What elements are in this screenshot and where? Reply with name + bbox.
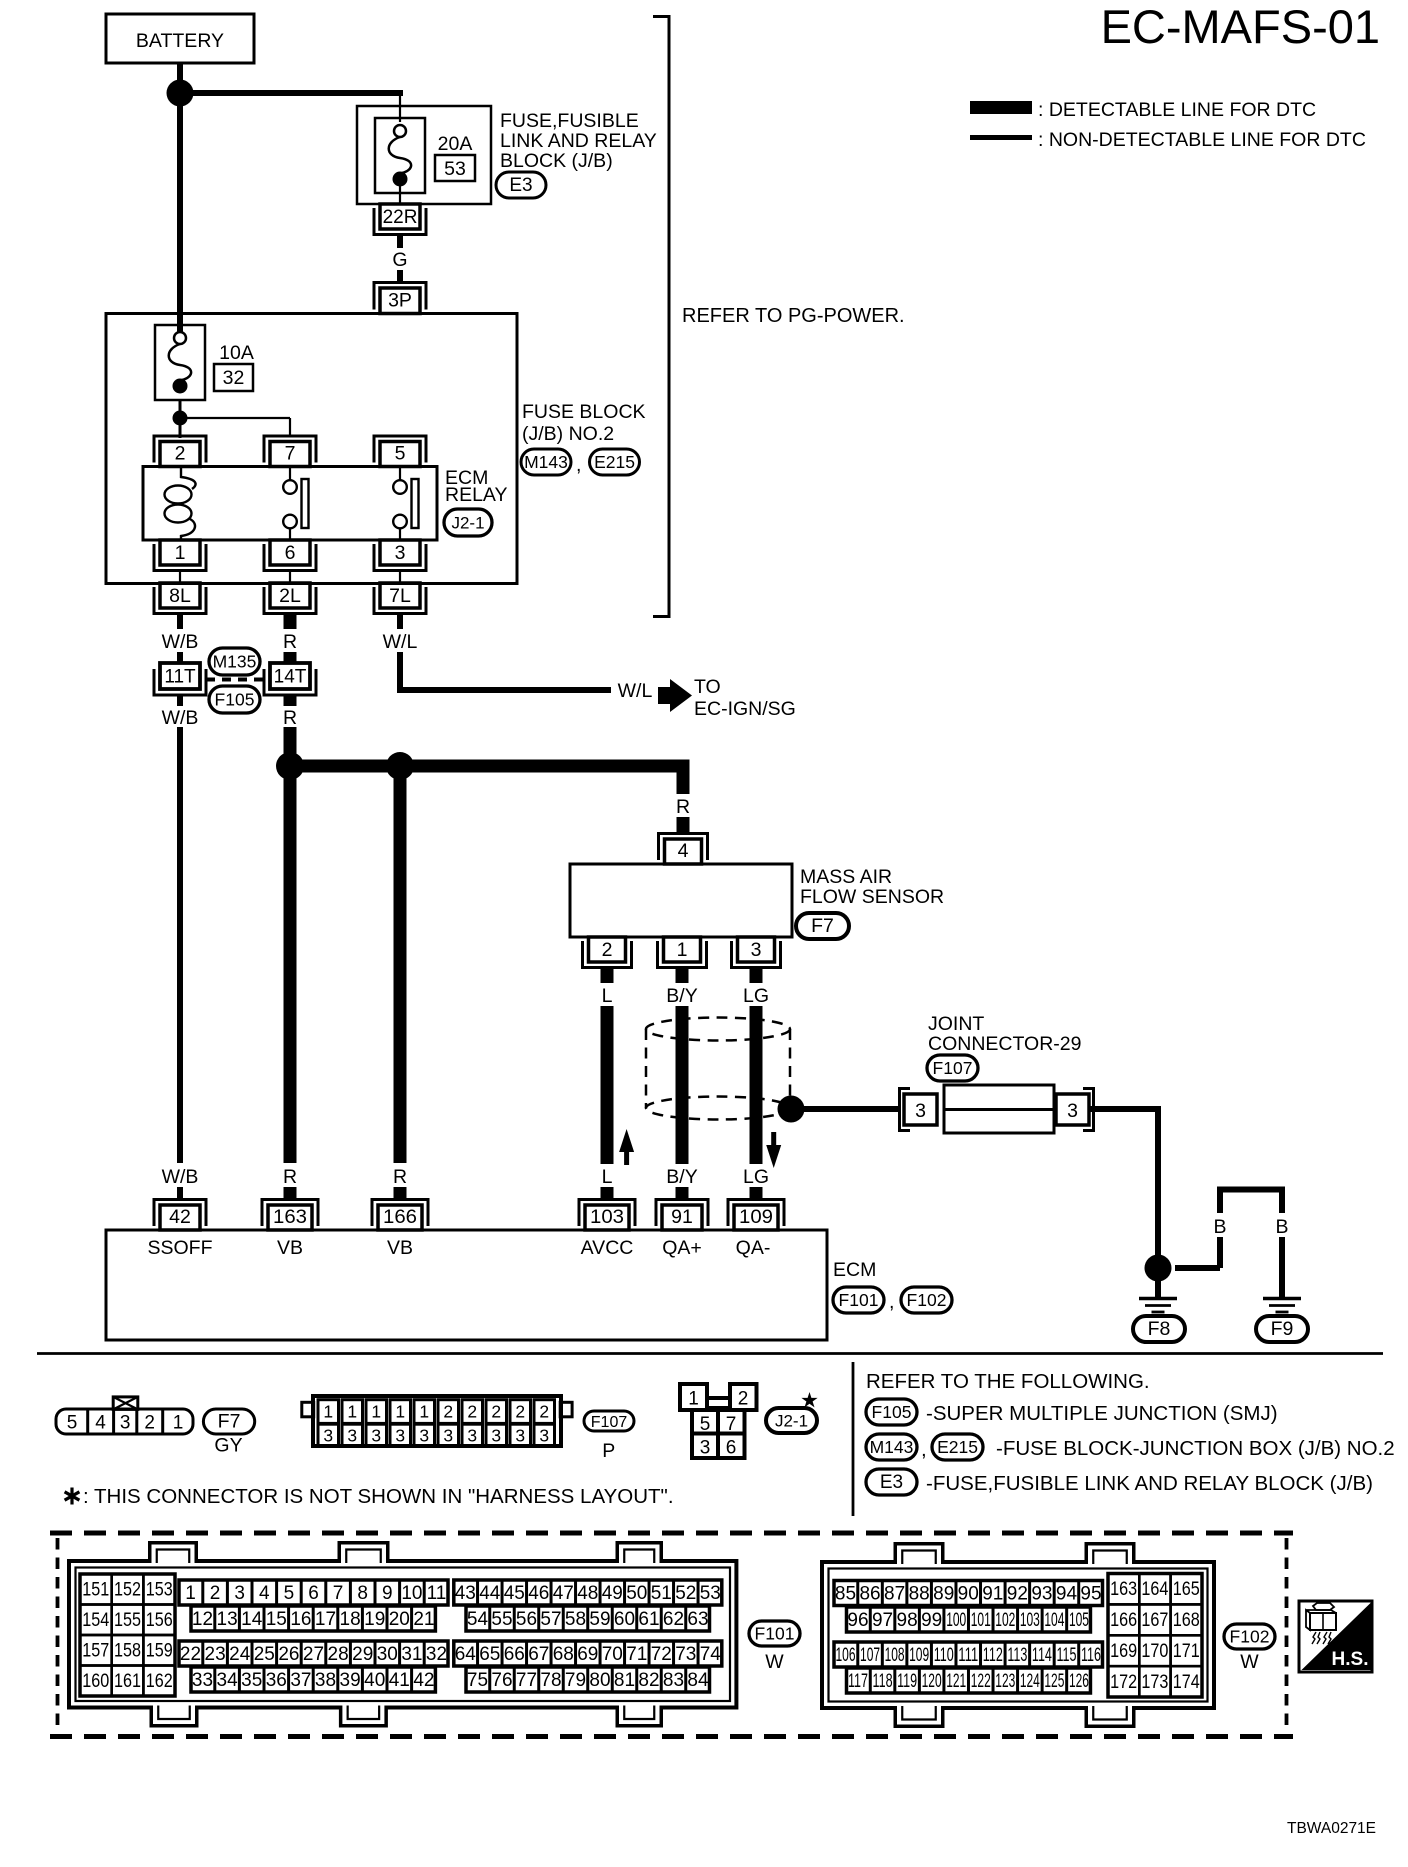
svg-text:154: 154 <box>82 1610 109 1631</box>
svg-text:104: 104 <box>1044 1610 1064 1631</box>
svg-text:,: , <box>889 1291 894 1313</box>
svg-text:QA-: QA- <box>736 1237 771 1259</box>
svg-text:123: 123 <box>995 1671 1015 1692</box>
svg-text:3: 3 <box>419 1426 429 1446</box>
svg-text:AVCC: AVCC <box>581 1237 634 1259</box>
svg-text:96: 96 <box>847 1610 868 1631</box>
svg-text:2: 2 <box>210 1583 221 1604</box>
svg-text:10: 10 <box>401 1583 422 1604</box>
svg-text:44: 44 <box>479 1583 501 1604</box>
svg-text:174: 174 <box>1173 1672 1200 1693</box>
svg-text:: DETECTABLE LINE FOR DTC: : DETECTABLE LINE FOR DTC <box>1038 99 1316 121</box>
svg-text:74: 74 <box>700 1644 722 1665</box>
svg-text:49: 49 <box>602 1583 623 1604</box>
svg-text:2: 2 <box>175 443 186 465</box>
svg-text:21: 21 <box>413 1609 434 1630</box>
svg-text:22R: 22R <box>383 207 418 228</box>
svg-text:118: 118 <box>873 1671 893 1692</box>
svg-text:151: 151 <box>82 1580 109 1601</box>
svg-text:2: 2 <box>602 939 613 961</box>
svg-text:92: 92 <box>1007 1584 1028 1605</box>
svg-text:5: 5 <box>395 443 406 465</box>
svg-text:-SUPER MULTIPLE JUNCTION (SMJ): -SUPER MULTIPLE JUNCTION (SMJ) <box>926 1402 1278 1425</box>
svg-text:W/B: W/B <box>162 1166 199 1188</box>
svg-text:W/L: W/L <box>383 631 418 653</box>
svg-text:3: 3 <box>323 1426 333 1446</box>
svg-text:69: 69 <box>577 1644 598 1665</box>
svg-text:119: 119 <box>897 1671 917 1692</box>
svg-text:31: 31 <box>401 1644 422 1665</box>
svg-text:2: 2 <box>443 1402 453 1422</box>
svg-text:4: 4 <box>678 840 689 862</box>
svg-text:1: 1 <box>173 1413 184 1434</box>
svg-text:169: 169 <box>1110 1641 1137 1662</box>
svg-text:VB: VB <box>387 1237 413 1259</box>
svg-text:-FUSE BLOCK-JUNCTION BOX (J/B): -FUSE BLOCK-JUNCTION BOX (J/B) NO.2 <box>996 1437 1395 1460</box>
svg-text:7: 7 <box>285 443 296 465</box>
svg-text:8L: 8L <box>169 585 191 607</box>
svg-text:W: W <box>1240 1651 1259 1673</box>
svg-text:23: 23 <box>205 1644 226 1665</box>
svg-text:B/Y: B/Y <box>666 985 697 1007</box>
svg-text:: NON-DETECTABLE LINE FOR DTC: : NON-DETECTABLE LINE FOR DTC <box>1038 129 1366 151</box>
svg-text:9: 9 <box>382 1583 393 1604</box>
svg-text:14: 14 <box>241 1609 263 1630</box>
svg-text:30: 30 <box>377 1644 398 1665</box>
svg-text:B/Y: B/Y <box>666 1166 697 1188</box>
svg-text:155: 155 <box>114 1610 141 1631</box>
svg-text:66: 66 <box>504 1644 525 1665</box>
svg-text:P: P <box>602 1440 615 1462</box>
svg-text:3P: 3P <box>388 290 412 312</box>
svg-text:97: 97 <box>872 1610 893 1631</box>
svg-text:161: 161 <box>114 1671 141 1692</box>
svg-text:2: 2 <box>539 1402 549 1422</box>
svg-text:32: 32 <box>223 367 245 389</box>
svg-text:88: 88 <box>909 1584 930 1605</box>
svg-text:8: 8 <box>357 1583 368 1604</box>
svg-text:172: 172 <box>1110 1672 1137 1693</box>
svg-text:103: 103 <box>1020 1610 1040 1631</box>
svg-text:34: 34 <box>217 1670 239 1691</box>
svg-text:1: 1 <box>419 1402 429 1422</box>
svg-text:LG: LG <box>743 1166 769 1188</box>
svg-text:51: 51 <box>651 1583 672 1604</box>
svg-text:156: 156 <box>146 1610 173 1631</box>
svg-text:7: 7 <box>333 1583 344 1604</box>
svg-text:7: 7 <box>726 1414 737 1435</box>
svg-text:3: 3 <box>395 1426 405 1446</box>
svg-text:42: 42 <box>413 1670 434 1691</box>
svg-text:3: 3 <box>539 1426 549 1446</box>
svg-text:3: 3 <box>1067 1100 1078 1122</box>
svg-text:98: 98 <box>897 1610 918 1631</box>
svg-text:R: R <box>283 631 297 653</box>
svg-text:22: 22 <box>180 1644 201 1665</box>
svg-text:EC-IGN/SG: EC-IGN/SG <box>694 698 796 720</box>
svg-text:159: 159 <box>146 1641 173 1662</box>
svg-text:13: 13 <box>217 1609 238 1630</box>
svg-text:168: 168 <box>1173 1610 1200 1631</box>
svg-text:113: 113 <box>1007 1645 1027 1666</box>
svg-text:5: 5 <box>700 1414 711 1435</box>
svg-text:CONNECTOR-29: CONNECTOR-29 <box>928 1033 1082 1055</box>
svg-text:L: L <box>602 1166 613 1188</box>
svg-text:27: 27 <box>303 1644 324 1665</box>
svg-text:3: 3 <box>395 542 406 564</box>
svg-text:24: 24 <box>229 1644 251 1665</box>
svg-text:F101: F101 <box>755 1624 795 1644</box>
svg-text:42: 42 <box>169 1206 191 1228</box>
svg-text:VB: VB <box>277 1237 303 1259</box>
svg-text:117: 117 <box>848 1671 868 1692</box>
svg-text:28: 28 <box>328 1644 349 1665</box>
svg-text:93: 93 <box>1031 1584 1052 1605</box>
svg-text:1: 1 <box>347 1402 357 1422</box>
svg-text:7L: 7L <box>389 585 411 607</box>
svg-text:171: 171 <box>1173 1641 1200 1662</box>
svg-text:126: 126 <box>1069 1671 1089 1692</box>
svg-text:2: 2 <box>491 1402 501 1422</box>
svg-text:E215: E215 <box>937 1437 978 1457</box>
svg-text:: THIS CONNECTOR IS NOT SHOWN: : THIS CONNECTOR IS NOT SHOWN IN "HARNES… <box>83 1485 674 1508</box>
svg-text:67: 67 <box>528 1644 549 1665</box>
svg-text:3: 3 <box>915 1100 926 1122</box>
svg-text:165: 165 <box>1173 1579 1200 1600</box>
svg-text:57: 57 <box>540 1609 561 1630</box>
svg-text:65: 65 <box>479 1644 500 1665</box>
svg-text:153: 153 <box>146 1580 173 1601</box>
svg-text:95: 95 <box>1080 1584 1101 1605</box>
svg-text:85: 85 <box>835 1584 856 1605</box>
svg-text:M143: M143 <box>524 452 568 472</box>
svg-text:71: 71 <box>626 1644 647 1665</box>
svg-text:MASS AIR: MASS AIR <box>800 866 892 888</box>
svg-text:115: 115 <box>1056 1645 1076 1666</box>
svg-text:53: 53 <box>444 158 466 180</box>
svg-text:45: 45 <box>504 1583 525 1604</box>
svg-text:110: 110 <box>934 1645 954 1666</box>
svg-text:1: 1 <box>371 1402 381 1422</box>
svg-text:163: 163 <box>273 1207 307 1228</box>
svg-text:14T: 14T <box>274 667 307 688</box>
svg-text:20: 20 <box>389 1609 410 1630</box>
svg-text:162: 162 <box>146 1671 173 1692</box>
svg-text:58: 58 <box>565 1609 586 1630</box>
svg-text:F8: F8 <box>1148 1318 1171 1340</box>
svg-text:M135: M135 <box>213 652 257 672</box>
svg-text:114: 114 <box>1032 1645 1052 1666</box>
svg-text:W/B: W/B <box>162 707 199 729</box>
svg-text:64: 64 <box>455 1644 477 1665</box>
svg-text:GY: GY <box>214 1435 242 1457</box>
svg-text:33: 33 <box>192 1670 213 1691</box>
svg-text:158: 158 <box>114 1641 141 1662</box>
svg-text:QA+: QA+ <box>662 1237 702 1259</box>
svg-text:RELAY: RELAY <box>445 484 508 506</box>
svg-text:100: 100 <box>946 1610 966 1631</box>
svg-text:F105: F105 <box>215 690 255 710</box>
svg-text:5: 5 <box>67 1413 78 1434</box>
svg-text:78: 78 <box>540 1670 561 1691</box>
svg-text:F102: F102 <box>907 1290 947 1310</box>
svg-text:6: 6 <box>308 1583 319 1604</box>
svg-text:52: 52 <box>675 1583 696 1604</box>
svg-text:R: R <box>393 1166 407 1188</box>
svg-text:87: 87 <box>884 1584 905 1605</box>
svg-text:F9: F9 <box>1271 1318 1294 1340</box>
svg-text:120: 120 <box>922 1671 942 1692</box>
svg-text:ECM: ECM <box>833 1259 876 1281</box>
svg-text:109: 109 <box>739 1207 773 1228</box>
svg-text:EC-MAFS-01: EC-MAFS-01 <box>1101 0 1380 53</box>
svg-text:J2-1: J2-1 <box>451 514 484 533</box>
svg-text:121: 121 <box>946 1671 966 1692</box>
svg-text:6: 6 <box>285 542 296 564</box>
svg-text:TBWA0271E: TBWA0271E <box>1287 1820 1376 1837</box>
svg-text:3: 3 <box>515 1426 525 1446</box>
svg-text:108: 108 <box>885 1645 905 1666</box>
svg-text:164: 164 <box>1141 1579 1168 1600</box>
svg-text:55: 55 <box>491 1609 512 1630</box>
svg-text:1: 1 <box>688 1389 699 1410</box>
svg-text:L: L <box>602 985 613 1007</box>
svg-text:5: 5 <box>284 1583 295 1604</box>
svg-text:48: 48 <box>577 1583 598 1604</box>
svg-text:109: 109 <box>909 1645 929 1666</box>
svg-text:F7: F7 <box>811 915 834 937</box>
svg-text:G: G <box>392 249 407 271</box>
svg-text:E3: E3 <box>509 175 532 196</box>
svg-text:FUSE BLOCK: FUSE BLOCK <box>522 401 646 423</box>
svg-text:18: 18 <box>340 1609 361 1630</box>
svg-text:H.S.: H.S. <box>1332 1649 1369 1670</box>
svg-text:43: 43 <box>455 1583 476 1604</box>
svg-text:103: 103 <box>590 1207 624 1228</box>
svg-text:3: 3 <box>467 1426 477 1446</box>
svg-text:32: 32 <box>426 1644 447 1665</box>
svg-text:40: 40 <box>364 1670 385 1691</box>
svg-text:82: 82 <box>638 1670 659 1691</box>
svg-text:86: 86 <box>859 1584 880 1605</box>
svg-text:3: 3 <box>347 1426 357 1446</box>
svg-text:JOINT: JOINT <box>928 1013 984 1035</box>
svg-text:12: 12 <box>192 1609 213 1630</box>
svg-text:83: 83 <box>663 1670 684 1691</box>
svg-text:R: R <box>283 1166 297 1188</box>
svg-text:E3: E3 <box>880 1472 903 1493</box>
svg-text:F7: F7 <box>218 1411 241 1433</box>
svg-text:LG: LG <box>743 985 769 1007</box>
svg-text:62: 62 <box>663 1609 684 1630</box>
svg-text:99: 99 <box>921 1610 942 1631</box>
svg-text:3: 3 <box>443 1426 453 1446</box>
svg-text:16: 16 <box>290 1609 311 1630</box>
svg-text:2: 2 <box>515 1402 525 1422</box>
svg-text:91: 91 <box>671 1206 693 1228</box>
svg-text:63: 63 <box>687 1609 708 1630</box>
svg-text:70: 70 <box>602 1644 623 1665</box>
svg-text:106: 106 <box>836 1645 856 1666</box>
svg-text:B: B <box>1213 1216 1226 1238</box>
svg-text:166: 166 <box>383 1207 417 1228</box>
svg-text:25: 25 <box>254 1644 275 1665</box>
svg-text:15: 15 <box>266 1609 287 1630</box>
svg-text:122: 122 <box>971 1671 991 1692</box>
svg-text:38: 38 <box>315 1670 336 1691</box>
svg-text:160: 160 <box>82 1671 109 1692</box>
svg-text:2: 2 <box>738 1389 749 1410</box>
svg-text:73: 73 <box>675 1644 696 1665</box>
svg-text:LINK AND RELAY: LINK AND RELAY <box>500 130 657 152</box>
svg-text:47: 47 <box>553 1583 574 1604</box>
svg-text:35: 35 <box>241 1670 262 1691</box>
svg-text:56: 56 <box>516 1609 537 1630</box>
svg-text:4: 4 <box>95 1413 106 1434</box>
svg-text:105: 105 <box>1069 1610 1089 1631</box>
svg-text:FUSE,FUSIBLE: FUSE,FUSIBLE <box>500 110 639 132</box>
svg-text:76: 76 <box>491 1670 512 1691</box>
svg-text:3: 3 <box>120 1413 131 1434</box>
svg-text:W/L: W/L <box>618 680 653 702</box>
svg-text:F105: F105 <box>872 1402 912 1422</box>
svg-text:163: 163 <box>1110 1579 1137 1600</box>
svg-text:6: 6 <box>726 1438 737 1459</box>
svg-text:1: 1 <box>185 1583 196 1604</box>
svg-text:SSOFF: SSOFF <box>147 1237 212 1259</box>
svg-text:REFER TO PG-POWER.: REFER TO PG-POWER. <box>682 305 905 327</box>
svg-text:TO: TO <box>694 676 721 698</box>
svg-text:R: R <box>283 707 297 729</box>
svg-text:81: 81 <box>614 1670 635 1691</box>
svg-text:3: 3 <box>491 1426 501 1446</box>
svg-text:157: 157 <box>82 1641 109 1662</box>
svg-text:W/B: W/B <box>162 631 199 653</box>
svg-text:107: 107 <box>860 1645 880 1666</box>
svg-text:REFER TO THE FOLLOWING.: REFER TO THE FOLLOWING. <box>866 1370 1150 1393</box>
svg-text:50: 50 <box>626 1583 647 1604</box>
svg-text:39: 39 <box>340 1670 361 1691</box>
svg-text:R: R <box>676 796 690 818</box>
svg-text:1: 1 <box>677 939 688 961</box>
svg-text:54: 54 <box>467 1609 489 1630</box>
svg-text:-FUSE,FUSIBLE LINK AND RELAY B: -FUSE,FUSIBLE LINK AND RELAY BLOCK (J/B) <box>926 1472 1373 1495</box>
svg-text:10A: 10A <box>219 342 254 364</box>
svg-text:FLOW SENSOR: FLOW SENSOR <box>800 886 944 908</box>
svg-text:152: 152 <box>114 1580 141 1601</box>
svg-text:90: 90 <box>958 1584 979 1605</box>
svg-text:80: 80 <box>589 1670 610 1691</box>
svg-text:173: 173 <box>1141 1672 1168 1693</box>
svg-text:91: 91 <box>982 1584 1003 1605</box>
svg-text:3: 3 <box>234 1583 245 1604</box>
svg-text:J2-1: J2-1 <box>775 1412 808 1431</box>
svg-text:11: 11 <box>427 1583 447 1604</box>
svg-text:20A: 20A <box>438 133 473 155</box>
svg-text:101: 101 <box>971 1610 991 1631</box>
svg-text:29: 29 <box>352 1644 373 1665</box>
svg-text:(J/B) NO.2: (J/B) NO.2 <box>522 423 614 445</box>
svg-text:,: , <box>576 454 581 476</box>
svg-text:84: 84 <box>687 1670 709 1691</box>
svg-text:37: 37 <box>290 1670 311 1691</box>
svg-text:59: 59 <box>589 1609 610 1630</box>
svg-text:19: 19 <box>364 1609 385 1630</box>
svg-text:F107: F107 <box>591 1414 628 1431</box>
svg-text:F101: F101 <box>839 1290 879 1310</box>
svg-text:72: 72 <box>651 1644 672 1665</box>
svg-text:102: 102 <box>995 1610 1015 1631</box>
svg-text:61: 61 <box>638 1609 659 1630</box>
svg-text:1: 1 <box>175 542 186 564</box>
svg-text:2: 2 <box>467 1402 477 1422</box>
svg-text:60: 60 <box>614 1609 635 1630</box>
svg-text:170: 170 <box>1141 1641 1168 1662</box>
svg-text:79: 79 <box>565 1670 586 1691</box>
svg-text:116: 116 <box>1081 1645 1101 1666</box>
svg-text:W: W <box>765 1651 784 1673</box>
svg-text:2L: 2L <box>279 585 301 607</box>
svg-text:124: 124 <box>1020 1671 1040 1692</box>
svg-text:F102: F102 <box>1230 1627 1270 1647</box>
svg-text:68: 68 <box>553 1644 574 1665</box>
svg-text:B: B <box>1275 1216 1288 1238</box>
svg-text:1: 1 <box>395 1402 405 1422</box>
svg-text:17: 17 <box>315 1609 336 1630</box>
svg-text:111: 111 <box>958 1645 978 1666</box>
svg-text:1: 1 <box>323 1402 333 1422</box>
svg-text:BATTERY: BATTERY <box>136 30 224 52</box>
svg-text:,: , <box>921 1438 927 1461</box>
svg-text:166: 166 <box>1110 1610 1137 1631</box>
svg-text:E215: E215 <box>594 452 635 472</box>
svg-text:M143: M143 <box>870 1437 914 1457</box>
svg-text:112: 112 <box>983 1645 1003 1666</box>
svg-text:53: 53 <box>700 1583 721 1604</box>
svg-text:3: 3 <box>751 939 762 961</box>
svg-text:94: 94 <box>1056 1584 1078 1605</box>
svg-text:77: 77 <box>516 1670 537 1691</box>
svg-text:F107: F107 <box>933 1058 973 1078</box>
svg-text:11T: 11T <box>164 667 196 688</box>
svg-text:46: 46 <box>528 1583 549 1604</box>
svg-text:167: 167 <box>1141 1610 1168 1631</box>
svg-text:125: 125 <box>1044 1671 1064 1692</box>
svg-text:89: 89 <box>933 1584 954 1605</box>
svg-text:3: 3 <box>371 1426 381 1446</box>
svg-text:75: 75 <box>467 1670 488 1691</box>
svg-text:36: 36 <box>266 1670 287 1691</box>
svg-text:4: 4 <box>259 1583 270 1604</box>
svg-text:BLOCK (J/B): BLOCK (J/B) <box>500 150 613 172</box>
svg-text:26: 26 <box>278 1644 299 1665</box>
svg-text:2: 2 <box>144 1413 155 1434</box>
svg-text:41: 41 <box>389 1670 410 1691</box>
svg-text:3: 3 <box>700 1438 711 1459</box>
